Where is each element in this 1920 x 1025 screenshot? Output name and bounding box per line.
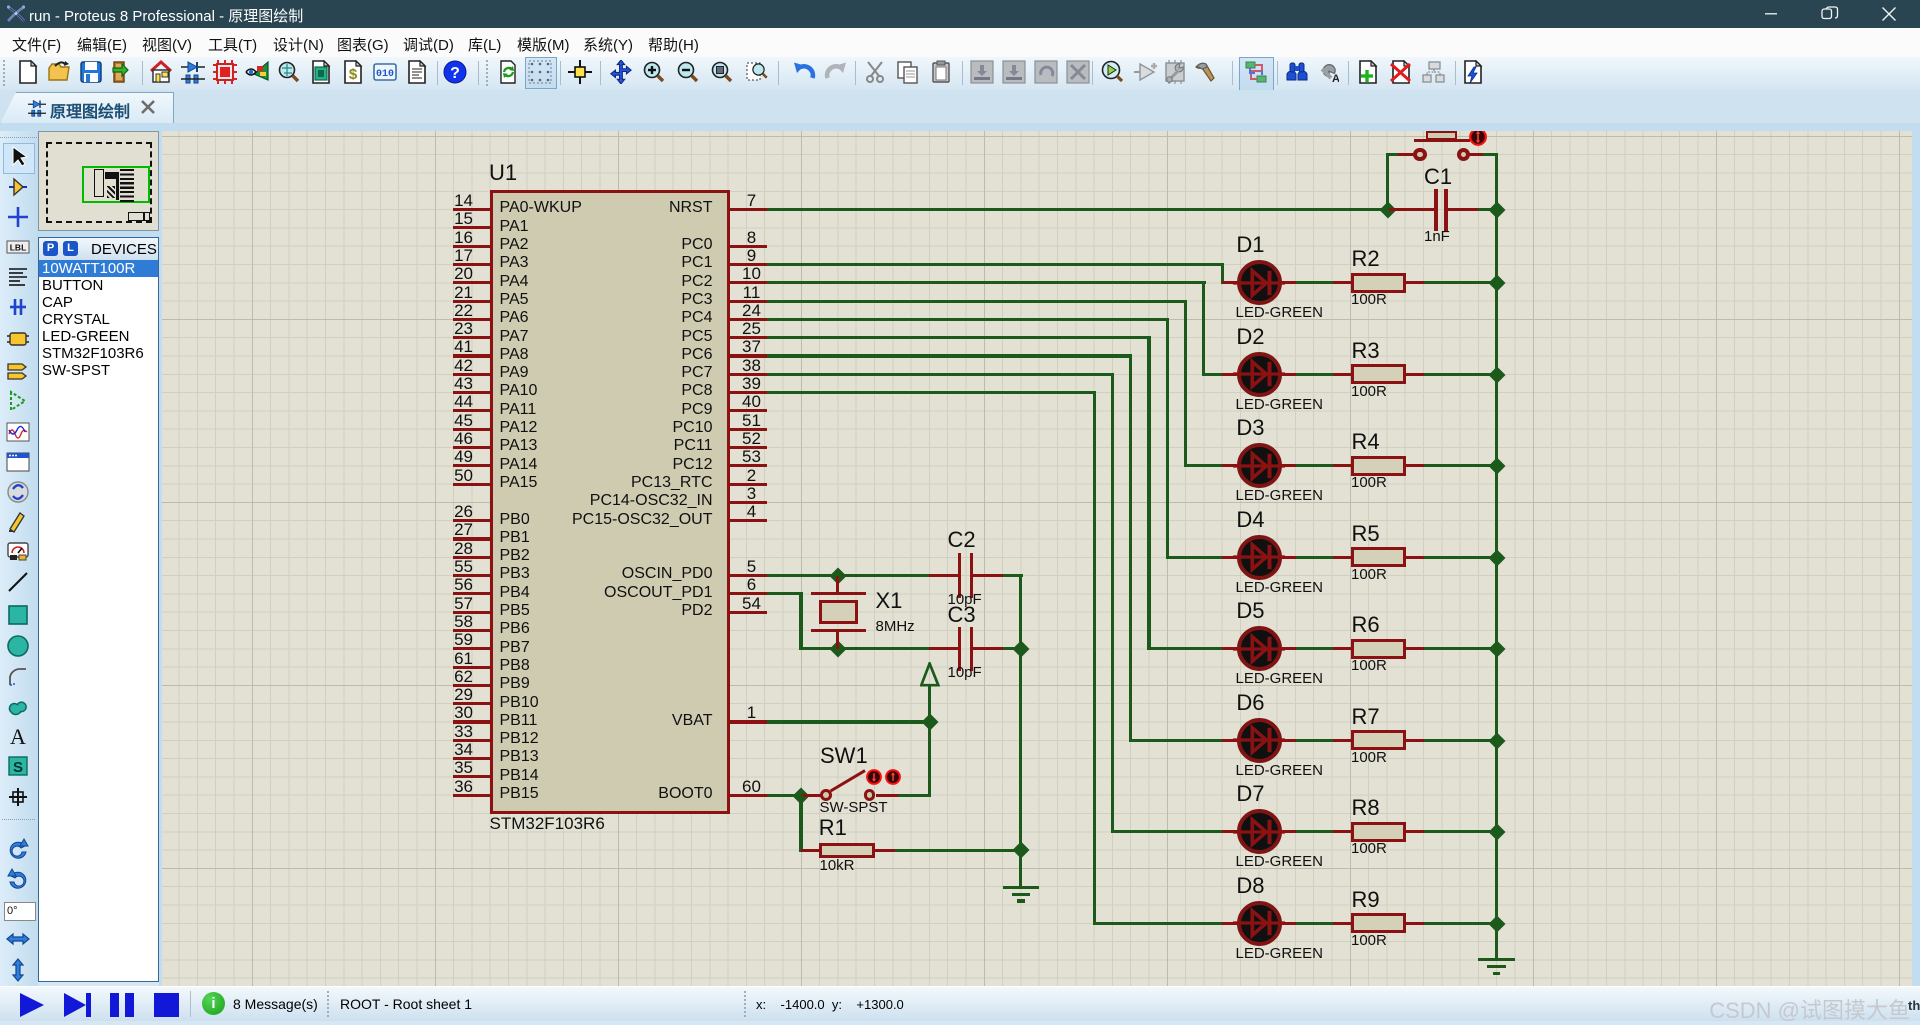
- svg-text:A: A: [1332, 73, 1339, 84]
- svg-text:$: $: [349, 66, 358, 83]
- svg-text:A: A: [10, 724, 26, 748]
- svg-text:?: ?: [450, 65, 460, 82]
- svg-text:010: 010: [376, 69, 394, 80]
- svg-text:S: S: [13, 759, 23, 776]
- svg-text:LBL: LBL: [10, 243, 27, 253]
